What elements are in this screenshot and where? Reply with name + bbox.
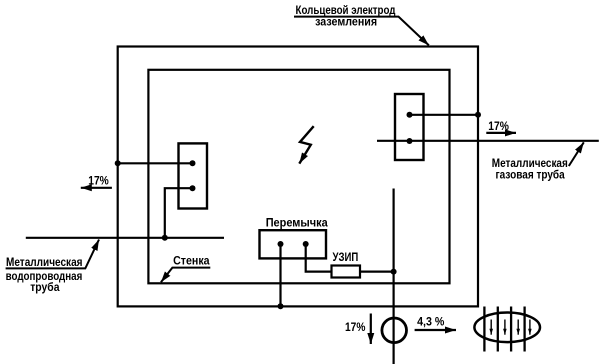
inner wall rectangle (Стенка) bbox=[148, 70, 449, 283]
node: right box bottom terminal bbox=[407, 138, 413, 144]
current arrow 4 in ellipse bbox=[529, 320, 531, 335]
wire: jumper left terminal down to outer ring bottom bbox=[279, 244, 281, 306]
SPD box (УЗИП) bbox=[332, 266, 361, 278]
wire: left box bottom terminal to water pipe bbox=[165, 188, 193, 238]
leader line for Стенка bbox=[161, 268, 210, 283]
svg-text:17%: 17% bbox=[488, 121, 509, 133]
wire: SPD to down conductor bbox=[360, 271, 394, 273]
svg-text:газовая труба: газовая труба bbox=[496, 169, 566, 181]
current arrow 2 in ellipse bbox=[504, 320, 506, 335]
earth rod 1 bbox=[483, 307, 485, 352]
node: jumper right terminal bbox=[303, 241, 309, 247]
node: junction on water pipe bbox=[162, 235, 168, 241]
left equipment box bbox=[179, 143, 208, 208]
svg-text:4,3 %: 4,3 % bbox=[417, 316, 444, 328]
svg-text:17%: 17% bbox=[88, 176, 109, 188]
svg-text:Металлическая: Металлическая bbox=[492, 158, 568, 170]
svg-text:заземления: заземления bbox=[315, 17, 377, 29]
earth termination ellipse bbox=[474, 313, 540, 343]
svg-text:УЗИП: УЗИП bbox=[333, 252, 359, 264]
node: junction on outer ring right bbox=[475, 112, 481, 118]
label: Металлическая водопроводная труба bbox=[6, 257, 83, 294]
svg-text:Стенка: Стенка bbox=[173, 255, 210, 267]
earth rod 3 bbox=[510, 307, 512, 352]
earth rod 2 bbox=[497, 307, 499, 352]
current arrow 1 in ellipse bbox=[490, 320, 492, 335]
current arrow 3 in ellipse bbox=[517, 320, 519, 335]
svg-text:Металлическая: Металлическая bbox=[6, 257, 83, 269]
jumper box (Перемычка) bbox=[260, 230, 327, 258]
node: left box bottom terminal bbox=[190, 185, 196, 191]
leader line for water pipe label bbox=[6, 240, 99, 269]
wire: down conductor bbox=[393, 189, 395, 364]
wire: jumper right terminal to SPD bbox=[306, 244, 332, 272]
label: Металлическая газовая труба bbox=[492, 158, 568, 181]
lightning bolt bbox=[299, 126, 313, 163]
wire: left box top terminal to outer ring bbox=[118, 162, 193, 164]
node: junction on outer ring bottom bbox=[278, 303, 284, 309]
node: right box top terminal bbox=[407, 112, 413, 118]
wire: metal gas pipe bbox=[377, 140, 599, 142]
svg-text:Перемычка: Перемычка bbox=[266, 217, 329, 229]
svg-text:Кольцевой электрод: Кольцевой электрод bbox=[296, 5, 397, 17]
right equipment box bbox=[395, 94, 424, 160]
node: junction on down conductor bbox=[391, 269, 397, 275]
svg-text:труба: труба bbox=[30, 282, 60, 294]
node: left box top terminal bbox=[190, 160, 196, 166]
node: jumper left terminal bbox=[278, 241, 284, 247]
leader line for ring electrode label bbox=[294, 17, 429, 46]
outer ring earth electrode rectangle bbox=[118, 47, 478, 307]
label: Кольцевой электрод заземления bbox=[296, 5, 397, 29]
earth rod 4 bbox=[523, 307, 525, 352]
earth electrode circle bbox=[382, 318, 407, 343]
svg-text:17%: 17% bbox=[345, 322, 365, 334]
wire: metal water pipe bbox=[26, 237, 224, 239]
wire: right box top terminal to outer ring bbox=[410, 114, 479, 116]
node: junction on outer ring left bbox=[115, 160, 121, 166]
leader line for gas pipe label bbox=[569, 142, 584, 166]
